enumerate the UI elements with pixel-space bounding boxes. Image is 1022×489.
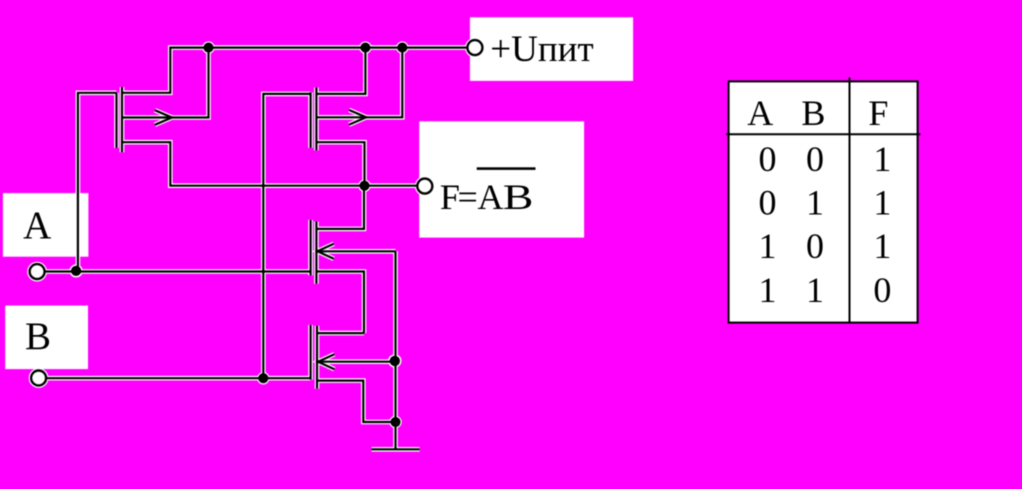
svg-text:1: 1 (759, 226, 777, 266)
terminal circle input B (31, 371, 46, 386)
svg-text:0: 0 (759, 183, 777, 223)
truth table divider vertical (849, 78, 851, 323)
wire T3 drain to output node (316, 186, 364, 229)
svg-text:1: 1 (873, 183, 891, 223)
wire gate VT2 to input B (263, 94, 310, 378)
transistor VT2 PMOS arrow (349, 110, 366, 125)
wire T4 drain stub (317, 332, 364, 334)
junction dot rail-T2 substrate (397, 43, 407, 53)
junction dot rail-T2 drain (360, 43, 370, 53)
transistor VT1 PMOS gate bar (115, 93, 117, 148)
svg-text:0: 0 (759, 139, 777, 179)
svg-text:A: A (478, 177, 504, 217)
svg-text:1: 1 (759, 270, 777, 310)
wire substrate vertical to ground (394, 251, 396, 449)
label text F=AB (440, 177, 533, 217)
wire T4 source to ground (317, 381, 396, 422)
svg-text:+Uпит: +Uпит (490, 29, 593, 70)
wire T2 drain to rail (316, 48, 365, 94)
transistor VT3 NMOS gate bar (310, 220, 312, 276)
junction dot T4 substrate (390, 356, 400, 366)
label box input B (5, 306, 88, 370)
transistor VT3 NMOS channel bar (315, 222, 317, 284)
svg-text:A: A (23, 204, 51, 247)
wire T1 substrate to rail (122, 48, 209, 118)
label box input A (3, 193, 89, 257)
junction dot output node (359, 181, 369, 191)
overbar on AB (477, 167, 536, 170)
svg-text:0: 0 (806, 139, 824, 179)
svg-text:A: A (747, 93, 773, 133)
wire input A (45, 270, 311, 272)
wire VDD rail with T1 drain (122, 48, 467, 93)
transistor VT2 PMOS channel bar (315, 87, 317, 150)
wire T2 source to output node (316, 142, 364, 186)
svg-text:1: 1 (873, 139, 891, 179)
transistor VT3 NMOS arrow (317, 244, 333, 259)
wire T2 substrate to rail (316, 48, 402, 118)
svg-text:B: B (503, 177, 533, 217)
terminal circle output F (417, 179, 432, 194)
transistor VT4 NMOS gate bar (310, 325, 312, 380)
svg-text:F: F (868, 93, 888, 133)
junction dot input B branch (258, 373, 268, 383)
transistor VT4 NMOS channel bar (316, 326, 318, 389)
truth table box (729, 81, 918, 322)
svg-text:B: B (25, 315, 51, 358)
transistor VT4 NMOS arrow (318, 354, 334, 369)
truth table header underline (726, 133, 920, 135)
wire input B (46, 377, 310, 379)
label box +Upit power (470, 17, 633, 81)
junction dot rail-T1 substrate (203, 43, 213, 53)
transistor VT1 PMOS arrow (155, 110, 172, 125)
transistor VT1 PMOS channel bar (121, 87, 123, 152)
terminal circle +Upit (467, 40, 482, 55)
svg-text:1: 1 (806, 183, 824, 223)
svg-text:=: = (458, 177, 478, 217)
wire T4 substrate (317, 361, 396, 363)
terminal circle input A (30, 264, 45, 279)
label box output F (419, 121, 584, 237)
junction dot T4 source (390, 417, 400, 427)
wire T3 source to T4 drain (316, 272, 364, 334)
wire gate VT1 to input A (78, 93, 117, 272)
svg-text:0: 0 (873, 270, 891, 310)
ground (372, 448, 420, 450)
wire T3 substrate (316, 250, 395, 252)
transistor VT2 PMOS gate bar (310, 92, 312, 148)
svg-text:1: 1 (873, 226, 891, 266)
junction dot input A branch (71, 266, 81, 276)
svg-text:1: 1 (806, 270, 824, 310)
wire T1 source to output node (122, 142, 417, 186)
svg-text:0: 0 (806, 226, 824, 266)
svg-text:B: B (801, 93, 825, 133)
